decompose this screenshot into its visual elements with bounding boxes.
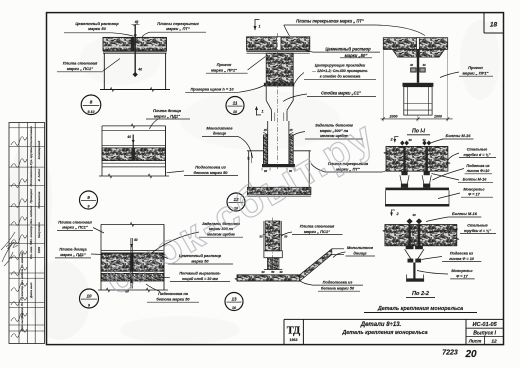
svg-text:марки „ ПД1“: марки „ ПД1“: [154, 113, 180, 118]
svg-text:Стойка марки „С1“: Стойка марки „С1“: [321, 90, 362, 95]
svg-text:Ст. инж. ПА: Ст. инж. ПА: [29, 241, 33, 259]
svg-text:листа Ф=10: листа Ф=10: [466, 169, 491, 173]
svg-text:90: 90: [261, 270, 265, 274]
svg-text:9: 9: [87, 195, 90, 200]
svg-text:25: 25: [263, 128, 268, 132]
svg-text:ТД: ТД: [287, 326, 301, 337]
svg-text:40: 40: [247, 157, 251, 162]
svg-text:Центрирующие прокладки: Центрирующие прокладки: [315, 63, 366, 67]
svg-text:марки „ ПС1“: марки „ ПС1“: [67, 66, 93, 71]
svg-text:Монолитное: Монолитное: [206, 125, 233, 130]
svg-text:марки „ ПС1“: марки „ ПС1“: [62, 225, 88, 230]
svg-text:1963: 1963: [290, 338, 298, 342]
svg-text:50: 50: [284, 235, 288, 239]
svg-text:днище: днище: [213, 131, 227, 136]
svg-text:Клемперский: Клемперский: [37, 141, 41, 160]
svg-text:Гл. констр.: Гл. констр.: [20, 285, 24, 300]
svg-text:11: 11: [233, 100, 238, 105]
svg-text:бетона марки 50: бетона марки 50: [321, 286, 355, 291]
svg-text:В. Андол: В. Андол: [37, 169, 41, 182]
svg-text:марки „ ПТ“: марки „ ПТ“: [166, 26, 190, 31]
svg-text:9: 9: [88, 304, 90, 308]
svg-text:12: 12: [491, 339, 497, 345]
svg-text:Болты М-16: Болты М-16: [446, 133, 472, 138]
svg-text:Радзивилов: Радзивилов: [37, 191, 41, 208]
svg-text:40: 40: [137, 68, 142, 72]
svg-text:2000: 2000: [389, 115, 398, 119]
svg-text:Плита стеновая: Плита стеновая: [300, 223, 335, 228]
svg-text:Согласовано: Согласовано: [29, 126, 33, 146]
svg-text:Монорельс: Монорельс: [451, 269, 473, 273]
svg-text:Плиты перекрытия марки „ ПТ: Плиты перекрытия марки „ ПТ“: [296, 19, 365, 24]
svg-text:25: 25: [288, 128, 293, 132]
svg-text:Прогон: Прогон: [468, 65, 483, 70]
svg-text:ющий слой = 30 мм: ющий слой = 30 мм: [182, 277, 218, 281]
svg-text:Гл. инженер: Гл. инженер: [20, 252, 24, 268]
svg-text:Подготовка из: Подготовка из: [323, 279, 353, 284]
svg-text:9.10: 9.10: [88, 110, 95, 114]
svg-text:Нач. отдела: Нач. отдела: [29, 205, 33, 224]
svg-text:1963: 1963: [37, 246, 41, 253]
svg-text:Монолитное: Монолитное: [347, 245, 374, 250]
svg-text:50: 50: [259, 235, 263, 239]
svg-text:Плита днища: Плита днища: [59, 247, 87, 252]
svg-text:ИС-01-05: ИС-01-05: [472, 322, 497, 328]
svg-text:Болты М-16: Болты М-16: [452, 211, 478, 216]
svg-text:90: 90: [279, 270, 283, 274]
svg-text:Подготовка на: Подготовка на: [158, 291, 189, 296]
svg-text:Выпуск I: Выпуск I: [473, 331, 496, 337]
svg-text:10: 10: [86, 293, 92, 298]
svg-text:Монорельс: Монорельс: [463, 188, 485, 192]
svg-text:марки 50: марки 50: [88, 26, 106, 31]
svg-text:40: 40: [126, 135, 131, 139]
svg-text:марки „ ПР1“: марки „ ПР1“: [211, 67, 237, 72]
svg-text:марки „ ПД1“: марки „ ПД1“: [60, 252, 86, 257]
svg-text:марки „ ПР1“: марки „ ПР1“: [462, 70, 488, 75]
svg-text:Плита стеновая: Плита стеновая: [58, 219, 92, 224]
svg-text:10: 10: [232, 306, 236, 310]
svg-text:марки „50“: марки „50“: [345, 53, 369, 58]
svg-text:20: 20: [464, 349, 477, 360]
svg-text:Ф = 17: Ф = 17: [456, 274, 468, 278]
svg-text:бетона марки 50: бетона марки 50: [156, 297, 190, 302]
svg-text:Приварка щвом h = 10: Приварка щвом h = 10: [190, 86, 234, 91]
svg-text:9: 9: [88, 205, 90, 209]
svg-text:Деталь крепления монорельса: Деталь крепления монорельса: [341, 330, 427, 336]
svg-text:Цементный раствор: Цементный раствор: [325, 47, 371, 52]
svg-text:40: 40: [411, 213, 416, 217]
svg-text:Подвеска из: Подвеска из: [450, 252, 473, 256]
svg-text:Проверил: Проверил: [29, 188, 33, 203]
svg-text:Дата выпуска: Дата выпуска: [20, 312, 24, 332]
svg-text:листа Ф = 10: листа Ф = 10: [448, 257, 475, 261]
svg-text:Дата вып.: Дата вып.: [29, 282, 33, 299]
svg-text:Подвеска из: Подвеска из: [466, 164, 489, 168]
svg-text:Деталь крепления монорельса: Деталь крепления монорельса: [377, 306, 463, 312]
svg-text:7223: 7223: [442, 350, 458, 357]
svg-text:Прогон: Прогон: [217, 62, 232, 67]
svg-text:18: 18: [490, 22, 498, 29]
svg-text:40: 40: [407, 138, 412, 142]
svg-text:к стойке до монтажа: к стойке до монтажа: [320, 75, 361, 79]
svg-text:1: 1: [262, 110, 264, 114]
svg-text:8: 8: [90, 100, 93, 105]
svg-text:40: 40: [409, 63, 414, 67]
svg-text:Стальные: Стальные: [467, 224, 488, 228]
svg-text:13: 13: [231, 296, 237, 301]
svg-text:По 2-2: По 2-2: [412, 291, 430, 297]
svg-text:40: 40: [421, 63, 426, 67]
svg-text:— 120×1.2; Ст.430 приварить: — 120×1.2; Ст.430 приварить: [311, 69, 367, 73]
svg-text:бетона марки 50: бетона марки 50: [193, 170, 228, 175]
svg-text:Болты М-16: Болты М-16: [463, 177, 488, 181]
svg-text:Нач. отдела: Нач. отдела: [20, 268, 24, 285]
svg-text:Детали 8÷13.: Детали 8÷13.: [360, 322, 402, 328]
svg-text:Исполнитель: Исполнитель: [29, 165, 33, 186]
svg-text:По I-I: По I-I: [412, 128, 426, 134]
svg-text:10: 10: [233, 110, 237, 114]
svg-text:Плита днища: Плита днища: [153, 108, 182, 113]
svg-text:трубки d = ¾“: трубки d = ¾“: [464, 229, 491, 233]
svg-text:Ф = 17: Ф = 17: [468, 193, 480, 197]
svg-text:Плита стеновая: Плита стеновая: [63, 61, 98, 66]
svg-text:днище: днище: [353, 250, 367, 255]
svg-text:Гл. констр.: Гл. констр.: [29, 225, 33, 243]
svg-text:Стальные: Стальные: [467, 148, 488, 152]
svg-text:Подготовка из: Подготовка из: [195, 164, 226, 169]
svg-text:Капусткин: Капусткин: [37, 222, 41, 238]
svg-text:50: 50: [271, 270, 275, 274]
svg-text:марки „ ПС1“: марки „ ПС1“: [304, 229, 330, 234]
svg-text:1000: 1000: [434, 115, 442, 119]
svg-text:Лист: Лист: [468, 339, 482, 344]
svg-text:1: 1: [259, 25, 261, 29]
svg-text:Рук. группы: Рук. группы: [29, 147, 33, 166]
svg-text:Песчаный выравнива-: Песчаный выравнива-: [179, 271, 221, 275]
svg-text:трубки d = ¾“: трубки d = ¾“: [463, 153, 490, 157]
